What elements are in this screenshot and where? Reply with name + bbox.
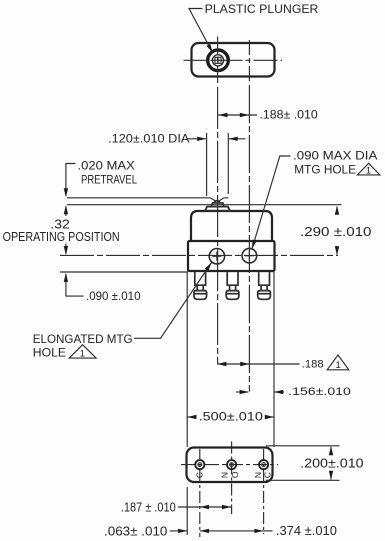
svg-text:N: N: [219, 472, 229, 478]
extension line left edge below bottom view: [186, 487, 188, 535]
center line horizontal (top view): [184, 59, 283, 61]
svg-text:1: 1: [336, 360, 341, 371]
svg-text:.188± .010: .188± .010: [260, 109, 319, 122]
terminal hole NC: [259, 460, 268, 469]
operating position line: [67, 204, 342, 206]
center line vertical hole C: [199, 449, 201, 537]
dimension .200 extension lines: [266, 445, 340, 447]
svg-text:HOLE: HOLE: [33, 345, 66, 359]
center line vertical long right (right mtg hole): [248, 85, 250, 392]
flag note triangle 1 (mtg hole): [357, 163, 380, 175]
center line through mounting holes (horizontal): [60, 254, 338, 256]
extension line plunger dia right: [227, 133, 229, 194]
svg-text:.500±.010: .500±.010: [199, 410, 264, 424]
leader .020 pretravel: [66, 164, 76, 196]
dimension .200 arrows: [330, 447, 332, 455]
leader elongated mtg hole: [134, 263, 211, 339]
svg-text:ELONGATED MTG: ELONGATED MTG: [33, 332, 133, 346]
svg-text:.020 MAX: .020 MAX: [78, 159, 135, 173]
plunger collar base (front view): [205, 207, 230, 211]
bottom view center line horizontal: [181, 464, 278, 466]
svg-text:PRETRAVEL: PRETRAVEL: [81, 173, 137, 187]
terminal 3 blade: [258, 272, 271, 300]
terminal 1 blade: [194, 272, 207, 300]
svg-text:.187 ± .010: .187 ± .010: [121, 500, 176, 514]
center line vertical through plunger (top view): [217, 37, 219, 84]
flag note triangle 1 (.188): [327, 355, 349, 370]
mounting hole left (elongated): [209, 249, 224, 264]
svg-text:OPERATING POSITION: OPERATING POSITION: [3, 229, 120, 244]
dimension .187: [178, 506, 231, 508]
svg-text:MTG HOLE: MTG HOLE: [294, 163, 356, 177]
leader line PLASTIC PLUNGER: [189, 9, 213, 53]
svg-text:C: C: [194, 472, 204, 478]
extension line flange bottom (left): [60, 271, 188, 273]
mounting hole right: [242, 248, 257, 263]
svg-text:PLASTIC PLUNGER: PLASTIC PLUNGER: [205, 2, 319, 16]
dimension .188 lower: [217, 363, 299, 365]
free position line: [67, 198, 228, 202]
svg-text:.120±.010 DIA: .120±.010 DIA: [108, 131, 190, 145]
terminal 2 blade: [226, 272, 239, 300]
center line vertical long left (plunger / left mtg hole): [217, 87, 219, 364]
flag note triangle 1 (elongated hole): [69, 345, 96, 358]
leader .090 max dia mtg hole: [252, 156, 291, 249]
svg-text:1: 1: [366, 166, 371, 177]
front view body upper: [191, 211, 272, 241]
svg-text:.090 MAX DIA: .090 MAX DIA: [293, 149, 378, 163]
bottom view housing: [187, 448, 273, 483]
svg-text:.156±.010: .156±.010: [288, 386, 351, 398]
plunger knurl detail: [214, 57, 222, 65]
dimension .500: [187, 416, 196, 418]
top view housing: [192, 43, 275, 77]
svg-text:.374 ±.010: .374 ±.010: [276, 523, 337, 538]
extension line left edge (body to bottom view): [186, 272, 188, 447]
dimension .290: [336, 207, 338, 215]
svg-text:.188: .188: [302, 359, 324, 371]
dimension .188 top: [218, 114, 257, 116]
plunger outer ring (top view): [208, 50, 229, 71]
dimension .374: [200, 530, 263, 532]
plunger inner circle (top view): [212, 55, 223, 66]
svg-text:C: C: [262, 472, 272, 478]
svg-text:1: 1: [80, 349, 85, 360]
plunger cap: [214, 201, 220, 203]
extension line plunger dia left: [206, 133, 208, 196]
center line vertical hole NC: [263, 449, 265, 534]
dimension .32 arrows: [65, 206, 67, 216]
terminal hole NO: [227, 460, 236, 469]
svg-text:O: O: [230, 471, 240, 478]
svg-text:.290 ±.010: .290 ±.010: [300, 225, 372, 239]
center line vertical right hole (top view): [248, 40, 250, 81]
svg-text:.090 ±.010: .090 ±.010: [86, 289, 141, 303]
leader .090 dimension: [66, 274, 84, 296]
terminal hole C: [195, 460, 204, 469]
dimension .120 DIA arrows: [188, 138, 206, 140]
dimension .156: [236, 391, 248, 393]
center line vertical hole NO: [231, 442, 233, 515]
dimension .063 arrow: [170, 530, 187, 532]
front view flange: [188, 241, 275, 271]
svg-text:.200±.010: .200±.010: [300, 457, 363, 471]
plunger collar tier 2: [211, 203, 224, 207]
svg-text:.063± .010: .063± .010: [104, 524, 167, 539]
extension line right edge (body to bottom view): [273, 272, 275, 447]
